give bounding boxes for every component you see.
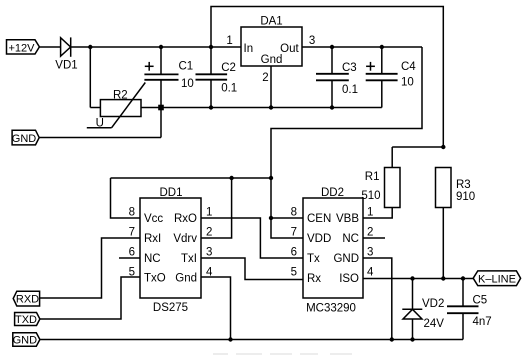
svg-text:VD1: VD1 [55,60,77,72]
chip DD1 DS275 [140,187,201,314]
svg-text:In: In [244,43,254,55]
svg-text:C1: C1 [179,60,194,72]
wire +12V tag to VD1 anode [39,46,60,48]
svg-text:1: 1 [226,35,232,47]
wire DD1 TxI to DD2 Rx [201,258,303,280]
wire faint caption remnant [213,353,352,355]
svg-text:RxO: RxO [174,213,197,225]
node junction DD1 gnd bottom [228,337,232,341]
capacitor C2 [196,47,238,108]
wire DD2 NC stub [363,237,385,239]
svg-text:Rx: Rx [307,273,321,285]
svg-text:RXD: RXD [16,293,39,305]
node junction DA1 gnd rail [269,105,273,109]
node RXD tag [13,291,39,306]
svg-text:GND: GND [12,133,37,145]
node junction R3 bottom [441,276,445,280]
wire ground rail top [161,107,382,109]
wire DD2 GND down [363,258,392,340]
node junction DD2 gnd bottom [390,337,394,341]
svg-text:U: U [96,118,104,130]
node square junction gnd/C1 [158,105,164,111]
node junction Vcc wire [269,176,273,180]
capacitor C1 [144,47,193,138]
node K-LINE tag [473,271,520,286]
svg-text:8: 8 [291,207,297,219]
resistor R3 [436,168,476,279]
svg-text:K–LINE: K–LINE [478,274,516,286]
svg-text:2: 2 [262,72,268,84]
wire down to R2 [89,47,91,108]
wire top bypass +12V over DA1 [211,7,443,148]
wire DD1 Gnd down [201,277,231,340]
svg-text:DD1: DD1 [159,187,182,199]
wire DD1 NC stub [119,257,140,259]
svg-text:24V: 24V [424,318,445,330]
wire DD2 VBB to R1 [363,208,392,219]
svg-text:DA1: DA1 [260,16,282,28]
svg-text:Vcc: Vcc [144,213,163,225]
node junction C4 top [380,45,384,49]
svg-text:3: 3 [309,35,315,47]
capacitor C4 [366,47,417,108]
svg-text:Gnd: Gnd [261,54,283,66]
resistor R2 varistor [87,83,161,130]
svg-text:10: 10 [401,76,414,88]
node junction Vdrv [229,176,233,180]
svg-text:6: 6 [291,247,297,259]
svg-text:0.1: 0.1 [342,84,358,96]
svg-text:MC33290: MC33290 [306,303,356,315]
svg-text:R3: R3 [456,179,471,191]
node junction VD1/R2 [88,45,92,49]
svg-text:VD2: VD2 [422,298,444,310]
chip DD2 MC33290 [303,187,363,315]
wire DA1 pin 2 down [270,66,272,108]
node +12V tag [7,40,40,55]
svg-text:C3: C3 [342,62,357,74]
svg-text:Tx: Tx [307,253,320,265]
wire Vcc down to DD1 pin 8 [111,178,141,218]
svg-text:Vdrv: Vdrv [173,233,197,245]
svg-text:7: 7 [129,227,135,239]
node GND tag top [12,130,39,145]
node junction C3 bottom [330,105,334,109]
diode VD1 [55,37,77,71]
svg-text:7: 7 [291,227,297,239]
svg-text:NC: NC [144,253,161,265]
svg-text:10: 10 [181,78,194,90]
node junction VD2 top [410,276,414,280]
svg-text:DS275: DS275 [153,302,188,314]
node TXD tag [15,313,40,327]
wire DD1 RxO to DD2 Tx [201,218,303,258]
svg-text:R1: R1 [365,171,380,183]
svg-text:Out: Out [280,43,299,55]
svg-text:GND: GND [333,253,359,265]
svg-text:0.1: 0.1 [221,82,237,94]
wire DD1 TxO to TXD [40,277,140,319]
svg-text:510: 510 [361,190,380,202]
wire Vcc top [111,177,272,179]
svg-text:ISO: ISO [339,273,359,285]
wire DD2 ISO to K-LINE [363,278,473,280]
node GND tag bottom [13,333,40,347]
svg-text:3: 3 [206,247,212,259]
wire DD1 Vdrv to Vcc [201,178,232,238]
svg-text:+12V: +12V [9,42,36,54]
svg-text:Gnd: Gnd [175,273,197,285]
svg-text:2: 2 [206,227,212,239]
capacitor C5 [447,279,492,340]
svg-text:3: 3 [367,247,373,259]
node junction C2 bottom [209,105,213,109]
svg-text:VBB: VBB [336,213,359,225]
node junction R3 top [441,145,445,149]
node junction CEN stub [269,216,273,220]
wire bottom ground rail [40,339,463,341]
svg-text:VDD: VDD [307,233,331,245]
svg-text:C2: C2 [221,62,236,74]
svg-text:CEN: CEN [307,213,331,225]
capacitor C3 [316,47,358,108]
node junction C1 top [159,45,163,49]
zener diode VD2 [402,279,444,340]
svg-text:4n7: 4n7 [473,316,492,328]
wire +12V rail to DA1 In [71,46,241,48]
svg-text:GND: GND [13,335,38,347]
svg-text:2: 2 [367,227,373,239]
wire GND tag to C1 bottom [39,137,161,139]
node junction C3 top [330,45,334,49]
svg-text:R2: R2 [113,89,128,101]
op-amp U1 voltage regulator DA1 [241,16,302,67]
wire DD1 RxI to RXD [40,238,140,298]
svg-text:TxO: TxO [144,273,166,285]
wire CEN stub [271,217,303,219]
wire +5V to DD2 VDD [271,47,422,238]
wire R1 top to R3 top [392,146,443,148]
svg-text:1: 1 [206,207,212,219]
node junction VD2 bottom [410,337,414,341]
svg-text:C4: C4 [401,61,416,73]
node junction C2 top [209,45,213,49]
svg-text:NC: NC [342,233,359,245]
svg-text:TXD: TXD [15,314,37,326]
resistor R1 [361,147,400,208]
svg-text:TxI: TxI [181,253,197,265]
svg-text:8: 8 [129,207,135,219]
svg-text:RxI: RxI [144,233,161,245]
svg-text:5: 5 [291,267,297,279]
svg-text:1: 1 [367,207,373,219]
svg-text:DD2: DD2 [321,187,344,199]
node junction C5 top [461,276,465,280]
svg-text:C5: C5 [473,295,488,307]
svg-text:4: 4 [367,267,374,279]
wire DA1 Out +5V [302,46,422,48]
svg-text:6: 6 [129,247,135,259]
svg-text:910: 910 [456,191,475,203]
